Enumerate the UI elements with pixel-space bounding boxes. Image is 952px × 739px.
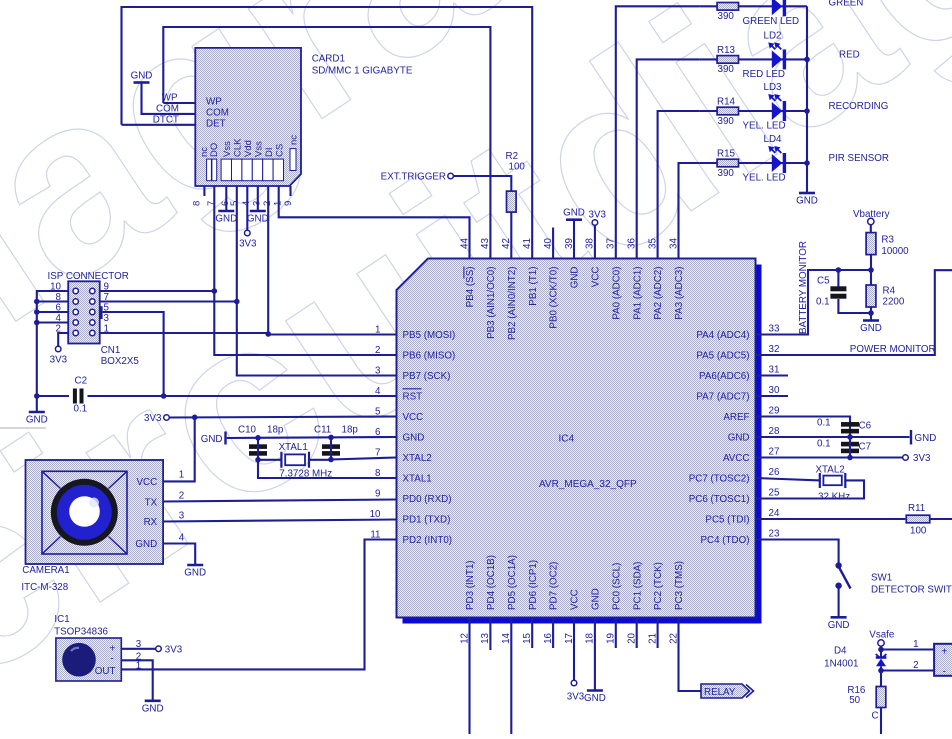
svg-text:C7: C7	[859, 442, 872, 453]
wire pin22 PC3 to RELAY	[679, 618, 702, 692]
svg-text:29: 29	[769, 406, 780, 417]
resistor R3 10000	[866, 233, 876, 255]
svg-text:GND: GND	[26, 415, 48, 426]
junction C6 C7 gnd	[847, 434, 853, 440]
svg-text:PC7 (TOSC2): PC7 (TOSC2)	[689, 473, 750, 484]
wire pin16 stub	[552, 618, 554, 649]
svg-text:3: 3	[104, 313, 110, 324]
svg-text:DETECTOR SWITCH: DETECTOR SWITCH	[871, 585, 952, 596]
svg-text:DTCT: DTCT	[153, 115, 179, 126]
resistor R4 2200	[870, 270, 872, 285]
svg-text:GND: GND	[591, 588, 602, 610]
junction GND C2 row	[34, 393, 40, 399]
capacitor C2 0.1	[73, 389, 77, 404]
wire ISP pin7 to CLK junction	[100, 300, 237, 302]
svg-text:2200: 2200	[883, 297, 905, 308]
wire R12 to LED	[700, 5, 717, 7]
svg-text:3V3: 3V3	[50, 355, 68, 366]
svg-text:R14: R14	[717, 97, 736, 108]
svg-text:0.1: 0.1	[817, 439, 831, 450]
resistor R12 390	[717, 3, 738, 11]
wire ISP pin1 MOSI row to IC pin1	[100, 333, 397, 335]
junction AVCC C7	[847, 455, 853, 461]
wire SW1 to GND	[838, 586, 840, 618]
svg-text:YEL. LED: YEL. LED	[743, 121, 786, 132]
svg-text:GND: GND	[796, 196, 818, 207]
connector CN1 BOX2X5 body	[68, 281, 100, 343]
svg-text:3V3: 3V3	[239, 239, 257, 250]
svg-text:AVCC: AVCC	[723, 453, 750, 464]
wire pin35 to recording LED row	[658, 111, 700, 259]
svg-text:D4: D4	[834, 646, 847, 657]
wire pin40 stub	[552, 228, 554, 259]
svg-text:LD2: LD2	[764, 31, 782, 42]
svg-text:GND: GND	[247, 214, 269, 225]
wire C10 bottom to crystal left and XTAL1 row	[258, 438, 397, 478]
wire card DO to ISP pin9 and IC MISO	[214, 186, 396, 355]
wire COM into card with GND	[142, 83, 196, 114]
wire camera TX to IC PD0	[163, 500, 396, 502]
svg-text:VCC: VCC	[137, 477, 158, 488]
svg-text:390: 390	[718, 11, 735, 22]
svg-text:390: 390	[718, 116, 735, 127]
svg-text:2: 2	[913, 660, 918, 671]
svg-text:24: 24	[769, 508, 780, 519]
wire IC1 pin3 to 3V3	[121, 648, 155, 650]
svg-text:PD5 (OC1A): PD5 (OC1A)	[507, 555, 518, 610]
capacitor C11 18p	[322, 444, 340, 449]
svg-text:PC3 (TMS): PC3 (TMS)	[674, 561, 685, 610]
svg-text:PA4 (ADC4): PA4 (ADC4)	[696, 330, 749, 341]
svg-text:10000: 10000	[881, 246, 909, 257]
wire card WP to pin43 via top	[163, 27, 490, 259]
wire R2 to pin42	[510, 212, 512, 258]
svg-text:PB7 (SCK): PB7 (SCK)	[403, 371, 451, 382]
junction LED cathode row 4	[804, 160, 810, 166]
svg-text:DI: DI	[264, 148, 275, 158]
capacitor C6 0.1	[841, 422, 859, 427]
svg-text:GND: GND	[860, 323, 882, 334]
capacitor C10 18p	[249, 444, 267, 449]
CN1 key mark	[99, 306, 102, 319]
tag RELAY	[701, 684, 750, 698]
CAMERA1 inner square with X	[42, 471, 127, 554]
wire D4 to battery pin2	[880, 650, 882, 658]
wire junction to R16	[880, 671, 882, 687]
svg-text:100: 100	[910, 526, 927, 537]
svg-text:IC4: IC4	[559, 434, 575, 445]
svg-text:PC5 (TDI): PC5 (TDI)	[705, 514, 749, 525]
svg-text:WP: WP	[206, 97, 222, 108]
svg-text:BATTERY MONITOR: BATTERY MONITOR	[798, 241, 809, 334]
wire 3V3 to IC pin5 VCC	[169, 417, 396, 418]
svg-text:25: 25	[769, 488, 780, 499]
svg-text:100: 100	[509, 162, 526, 173]
CARD1 pad nc right	[290, 149, 296, 171]
svg-text:+: +	[942, 647, 948, 658]
svg-text:GND: GND	[563, 208, 585, 219]
svg-text:VCC: VCC	[403, 412, 424, 423]
wire pin23 PC4 to SW1	[756, 540, 839, 563]
svg-text:CLK: CLK	[232, 138, 243, 157]
svg-text:PC6 (TOSC1): PC6 (TOSC1)	[689, 494, 750, 505]
svg-text:GND: GND	[584, 693, 606, 704]
junction D4 bottom	[878, 668, 884, 674]
ground SW1 GND	[831, 616, 847, 619]
svg-text:9: 9	[283, 201, 294, 206]
svg-text:PA6(ADC6): PA6(ADC6)	[699, 371, 749, 382]
svg-text:PD2 (INT0): PD2 (INT0)	[403, 535, 453, 546]
ground GND top left	[134, 81, 150, 84]
svg-text:23: 23	[769, 529, 780, 540]
svg-text:-: -	[943, 667, 946, 678]
svg-text:GREEN: GREEN	[829, 0, 864, 8]
svg-text:COM: COM	[206, 108, 229, 119]
svg-text:31: 31	[769, 365, 780, 376]
junction VCC camera tap	[192, 415, 198, 421]
svg-text:PA2 (ADC2): PA2 (ADC2)	[653, 267, 664, 320]
ground pin39 GND symbol	[566, 218, 582, 221]
wire R13 to LED	[700, 58, 717, 60]
LED LD1 GREEN LED	[772, 0, 783, 15]
wire pin36 to red LED row	[637, 59, 700, 258]
IC1 dome	[62, 643, 96, 677]
svg-text:PC4 (TDO): PC4 (TDO)	[701, 535, 750, 546]
svg-text:GND: GND	[728, 432, 750, 443]
wire pin18 GND down	[594, 618, 596, 691]
ground divider GND	[863, 319, 879, 322]
svg-text:GND: GND	[142, 703, 164, 714]
junction DO ISP pin9	[212, 288, 218, 294]
svg-text:ITC-M-328: ITC-M-328	[21, 582, 68, 593]
svg-text:PB0 (XCK/T0): PB0 (XCK/T0)	[549, 267, 560, 329]
wire pin31 stub	[756, 374, 789, 376]
svg-text:3V3: 3V3	[165, 645, 183, 656]
wire R15 to LED	[700, 162, 717, 164]
svg-text:PA0 (ADC0): PA0 (ADC0)	[611, 267, 622, 320]
resistor R16 50	[876, 687, 886, 708]
svg-text:OUT: OUT	[95, 666, 116, 677]
svg-text:50: 50	[849, 695, 860, 706]
wire WP into card	[163, 102, 195, 104]
svg-text:COM: COM	[156, 104, 179, 115]
switch SW1 contacts and blade	[835, 562, 841, 568]
wire card DI down to MOSI row	[267, 186, 269, 334]
wire pin30 stub	[756, 395, 789, 397]
wire ISP pin2 to 3V3	[58, 333, 68, 346]
wire C2 to RST row to IC pin4	[88, 395, 397, 397]
junction crystal right	[328, 457, 334, 463]
CARD1 pads Vss CLK Vdd Vss DI CS	[221, 159, 231, 181]
svg-text:8: 8	[192, 201, 203, 206]
wire R3 to divider junction	[870, 255, 872, 270]
svg-text:R15: R15	[717, 149, 736, 160]
crystal XTAL1 7.3728 MHz	[258, 459, 281, 461]
svg-text:3V3: 3V3	[589, 209, 607, 220]
LED LD2 RED LED	[772, 50, 783, 68]
junction ISP5 RST row	[161, 393, 167, 399]
junction DI MOSI row	[265, 331, 271, 337]
svg-text:WP: WP	[162, 93, 178, 104]
svg-text:C5: C5	[817, 276, 830, 287]
svg-text:SD/MMC 1 GIGABYTE: SD/MMC 1 GIGABYTE	[312, 66, 413, 77]
svg-text:R13: R13	[717, 45, 736, 56]
svg-text:0.1: 0.1	[816, 297, 830, 308]
svg-text:Vdd: Vdd	[243, 140, 254, 157]
svg-text:PB1 (T1): PB1 (T1)	[528, 267, 539, 306]
wire card CLK to ISP pin7 and IC SCK	[237, 186, 397, 376]
capacitor C7 0.1	[841, 442, 859, 447]
resistor R2 100	[507, 191, 517, 212]
svg-text:-: -	[111, 654, 114, 665]
resistor R11 100	[906, 515, 930, 523]
ground IC1 GND	[145, 699, 161, 702]
resistor R15 390	[717, 159, 738, 167]
svg-text:PB5 (MOSI): PB5 (MOSI)	[403, 330, 456, 341]
svg-text:GND: GND	[915, 433, 937, 444]
wire IC1 OUT to IC PD2 INT0	[121, 540, 396, 670]
svg-text:GND: GND	[215, 214, 237, 225]
svg-text:7: 7	[375, 447, 380, 458]
svg-text:TSOP34836: TSOP34836	[54, 627, 108, 638]
wire pin29 AREF to C6	[756, 417, 851, 438]
svg-text:CN1: CN1	[101, 345, 121, 356]
wire pin34 to PIR LED row	[679, 163, 700, 259]
capacitor C5 0.1	[837, 270, 839, 287]
svg-text:C: C	[872, 711, 879, 722]
svg-text:1N4001: 1N4001	[824, 659, 858, 670]
CN1 pin circles	[73, 288, 78, 293]
svg-text:32 KHz: 32 KHz	[818, 492, 850, 503]
power 3V3 pin17	[571, 680, 577, 686]
svg-text:XTAL1: XTAL1	[403, 473, 432, 484]
junction crystal left	[255, 457, 261, 463]
wire DTCT into card	[122, 124, 196, 126]
wire pin37 to green LED row	[616, 6, 700, 258]
power 3V3 card Vdd	[245, 230, 251, 236]
ground camera GND	[187, 564, 203, 567]
svg-text:RX: RX	[144, 517, 158, 528]
wire card CS to pin44	[279, 186, 470, 259]
svg-text:PB6 (MISO): PB6 (MISO)	[403, 350, 456, 361]
junction divider bottom	[868, 310, 874, 316]
wire card DET to pin41 via top	[122, 7, 533, 259]
svg-text:R4: R4	[883, 286, 896, 297]
svg-text:LD4: LD4	[764, 134, 783, 145]
ground card pin6 GND	[218, 210, 234, 213]
wire pin12 PD3 down	[468, 618, 470, 735]
junction LED cathode row 2	[804, 57, 810, 63]
wire ISP pin5 to RST row	[103, 312, 164, 396]
ground LED bus GND	[799, 192, 815, 195]
power 3V3 AVCC	[903, 455, 909, 461]
wire R11 to edge	[930, 518, 952, 520]
wire pin15 stub	[531, 618, 533, 649]
svg-text:IC1: IC1	[54, 614, 69, 625]
svg-text:BOX2X5: BOX2X5	[101, 356, 140, 367]
svg-text:PD7 (OC2): PD7 (OC2)	[549, 562, 560, 610]
svg-text:27: 27	[769, 447, 780, 458]
svg-text:LD3: LD3	[764, 82, 783, 93]
svg-text:0.1: 0.1	[74, 404, 88, 415]
svg-text:Vss: Vss	[222, 141, 233, 157]
svg-text:VCC: VCC	[591, 267, 602, 288]
svg-text:PD0 (RXD): PD0 (RXD)	[403, 494, 452, 505]
CARD1 pin 8 nc stub	[203, 186, 205, 196]
wire EXT.TRIGGER to R2	[453, 176, 511, 191]
svg-text:GND: GND	[131, 71, 153, 82]
svg-text:PD1 (TXD): PD1 (TXD)	[403, 514, 451, 525]
power 3V3 ISP pin2	[55, 346, 61, 352]
svg-text:SW1: SW1	[871, 573, 892, 584]
wire camera VCC riser	[163, 417, 195, 481]
wire pin17 VCC to 3V3	[573, 618, 575, 681]
svg-text:9: 9	[375, 488, 380, 499]
wire pin28 GND row	[756, 436, 910, 438]
wire pin32 PA5 power monitor	[756, 270, 952, 355]
svg-text:Vss: Vss	[253, 141, 264, 157]
svg-text:PB2 (AIN0/INT2): PB2 (AIN0/INT2)	[507, 267, 518, 341]
wire R16 down to edge	[880, 708, 882, 735]
connector CARD1 SD/MMC body	[195, 48, 301, 186]
svg-text:390: 390	[718, 64, 735, 75]
svg-text:RECORDING: RECORDING	[829, 101, 889, 112]
junction ISP gnd row6	[34, 309, 40, 315]
ground card pin3 GND	[250, 210, 266, 213]
svg-text:DO: DO	[209, 143, 220, 157]
wire card Vss pin6 to ground	[225, 186, 227, 211]
svg-text:GND: GND	[828, 620, 850, 631]
svg-text:EXT.TRIGGER: EXT.TRIGGER	[381, 172, 446, 183]
power 3V3 IC1	[156, 646, 162, 652]
wire XTAL2 to pin25 PC6	[756, 480, 865, 498]
svg-text:PA3 (ADC3): PA3 (ADC3)	[674, 267, 685, 320]
svg-text:C6: C6	[859, 421, 872, 432]
CARD1 pads nc DO	[207, 159, 212, 181]
svg-text:CAMERA1: CAMERA1	[22, 565, 69, 576]
svg-text:7.3728 MHz: 7.3728 MHz	[279, 469, 332, 480]
svg-text:GND: GND	[184, 568, 206, 579]
battery connector box	[934, 644, 952, 676]
wire C11 bottom to XTAL2 row	[330, 437, 332, 459]
svg-text:RED: RED	[839, 50, 860, 61]
junction C5 tap	[836, 267, 842, 273]
svg-text:4: 4	[179, 533, 185, 544]
wire pin14 PD5 down	[510, 618, 512, 735]
svg-text:PD4 (OC1B): PD4 (OC1B)	[486, 555, 497, 610]
svg-text:18p: 18p	[342, 425, 359, 436]
junction divider mid	[868, 267, 874, 273]
svg-text:PB4 (SS): PB4 (SS)	[465, 267, 476, 308]
wire pin33 PA4 battery monitor	[756, 270, 872, 335]
svg-text:GND: GND	[570, 267, 581, 289]
CARD1 pin 9 nc stub	[289, 186, 291, 196]
svg-text:32: 32	[769, 344, 780, 355]
wire Vsafe to battery pin1	[880, 646, 882, 649]
svg-text:26: 26	[769, 467, 780, 478]
svg-text:28: 28	[769, 426, 780, 437]
wire Vbattery to R3	[870, 225, 872, 233]
wire pin13 stub	[489, 618, 491, 651]
svg-text:1: 1	[179, 470, 184, 481]
svg-text:C10: C10	[238, 425, 257, 436]
junction Vsafe	[878, 647, 884, 653]
wire camera GND down	[163, 544, 195, 566]
svg-text:XTAL1: XTAL1	[279, 442, 308, 453]
svg-text:Vsafe: Vsafe	[869, 630, 895, 641]
svg-text:nc: nc	[289, 135, 300, 145]
junction C11 top	[328, 435, 334, 441]
svg-text:RELAY: RELAY	[704, 687, 736, 698]
svg-text:PA1 (ADC1): PA1 (ADC1)	[632, 267, 643, 320]
wire C7 to AVCC row	[849, 437, 851, 458]
svg-text:GREEN LED: GREEN LED	[743, 16, 800, 27]
svg-text:3: 3	[179, 511, 185, 522]
svg-text:CARD1: CARD1	[312, 54, 345, 65]
svg-text:GND: GND	[403, 432, 425, 443]
svg-text:C11: C11	[314, 425, 331, 436]
svg-text:R11: R11	[908, 503, 925, 514]
wire R14 to LED	[700, 110, 717, 112]
wire LED cathode bus	[806, 6, 808, 193]
svg-text:3V3: 3V3	[567, 692, 585, 703]
svg-text:PC1 (SDA): PC1 (SDA)	[632, 562, 643, 610]
svg-text:VCC: VCC	[570, 589, 581, 610]
junction LED cathode row 3	[804, 108, 810, 114]
wire GND bar to IC pin6 GND row	[227, 437, 397, 438]
svg-text:XTAL2: XTAL2	[403, 453, 432, 464]
svg-text:AREF: AREF	[723, 412, 749, 423]
ground GND right bar	[910, 430, 912, 445]
wire pin27 AVCC to 3V3	[756, 456, 903, 458]
svg-text:390: 390	[718, 168, 735, 179]
svg-text:GND: GND	[201, 434, 223, 445]
svg-text:1: 1	[913, 639, 918, 650]
svg-text:1: 1	[273, 201, 284, 206]
IC IC4 body shadow	[403, 265, 762, 624]
CAMERA1 lens rings	[51, 479, 118, 546]
wire GND bus to C2	[37, 395, 69, 397]
svg-text:RST: RST	[403, 391, 423, 402]
wire pin24 PC5 to R11	[756, 518, 906, 520]
wire pin26 PC7 to XTAL2	[756, 478, 820, 480]
svg-text:DET: DET	[206, 119, 226, 130]
svg-text:GND: GND	[135, 539, 157, 550]
resistor R14 390	[717, 107, 738, 115]
svg-text:PC0 (SCL): PC0 (SCL)	[611, 563, 622, 610]
svg-text:18p: 18p	[267, 425, 284, 436]
wire ISP left pins to GND bus	[37, 291, 68, 412]
IC IC1 TSOP34836 body	[56, 638, 121, 681]
module CAMERA1 body	[26, 460, 164, 564]
svg-text:YEL. LED: YEL. LED	[743, 173, 786, 184]
wire divider to GND	[870, 307, 872, 321]
wire IC1 pin2 to GND	[121, 660, 152, 701]
svg-text:PD3 (INT1): PD3 (INT1)	[465, 560, 476, 610]
svg-text:C2: C2	[75, 376, 88, 387]
junction ISP gnd row8	[34, 299, 40, 305]
diode D4 1N4001	[876, 656, 887, 659]
wire card Vss pin3 to ground	[257, 186, 259, 211]
LED LD4 YEL. LED	[772, 154, 783, 172]
svg-text:PIR SENSOR: PIR SENSOR	[829, 153, 889, 164]
wire pin21 stub	[657, 618, 659, 649]
wire pin19 stub	[615, 618, 617, 649]
svg-text:AVR_MEGA_32_QFP: AVR_MEGA_32_QFP	[539, 479, 637, 490]
wire XTAL2 row to IC pin7	[331, 458, 397, 460]
svg-text:ISP CONNECTOR: ISP CONNECTOR	[48, 271, 129, 282]
wire ISP pin9 to DO junction	[100, 290, 215, 292]
